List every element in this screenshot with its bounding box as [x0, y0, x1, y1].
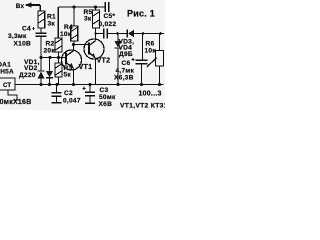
label C6 4,7мк Х6,3В: [114, 60, 135, 82]
input arrow: [25, 2, 40, 7]
svg-text:СТ: СТ: [3, 83, 11, 89]
resistor R1: [38, 11, 45, 28]
svg-text:VT1: VT1: [79, 62, 93, 71]
label R5 3к: [84, 9, 93, 23]
node VT2 collector junction: [94, 32, 96, 34]
svg-text:С4: С4: [22, 26, 31, 33]
node detector junction: [116, 32, 119, 35]
label DA1 inside СТ: [3, 83, 11, 89]
node bus VD1: [39, 83, 42, 86]
svg-text:4,7мк: 4,7мк: [116, 68, 135, 75]
svg-text:Д9Б: Д9Б: [119, 51, 133, 58]
diode VD2: [46, 58, 53, 85]
svg-text:3,3мк: 3,3мк: [8, 33, 27, 40]
label R2 20к: [44, 41, 56, 55]
wire VT2 emitter to ground bus: [95, 58, 97, 85]
node bus R6: [158, 83, 161, 86]
svg-text:Х6,3В: Х6,3В: [114, 75, 134, 82]
label C2 0,047: [63, 90, 81, 105]
svg-text:Х6В: Х6В: [99, 101, 113, 108]
label R3 5к: [64, 65, 73, 79]
label КР142ЕН5А: [0, 69, 14, 76]
wire C4 to base node: [40, 37, 42, 58]
capacitor C6: [132, 34, 148, 85]
node junction C4/VD1: [39, 56, 42, 59]
svg-text:С2: С2: [64, 90, 73, 97]
resistor R3: [55, 58, 62, 85]
wire VT1 emitter to ground bus: [73, 68, 75, 84]
svg-text:Д220: Д220: [19, 72, 36, 79]
svg-text:КР142ЕН5А: КР142ЕН5А: [0, 69, 14, 76]
capacitor C4: [32, 27, 47, 36]
capacitor C5 coupling: [104, 29, 107, 39]
label C5* 0,022: [99, 13, 117, 28]
label C3 50мк Х6В: [99, 87, 116, 108]
wire C5 to detector node: [108, 33, 128, 35]
voltage regulator DA1: [0, 78, 17, 100]
label R4 10к: [60, 24, 73, 38]
wire bus to R2: [57, 7, 59, 38]
node junction R2/R3: [57, 56, 60, 59]
resistor R6 variable: [147, 34, 164, 85]
node bus C3: [88, 83, 91, 86]
node VD3 output junction: [142, 32, 145, 35]
node R4/collector junction: [72, 43, 75, 46]
ground DA1: [14, 99, 21, 101]
svg-text:Вх: Вх: [16, 3, 25, 10]
svg-text:VT2: VT2: [97, 55, 111, 64]
capacitor C3: [82, 85, 95, 103]
ground C2: [52, 102, 62, 104]
svg-text:0,047: 0,047: [63, 98, 81, 105]
resistor R2: [55, 38, 62, 52]
node bus R3/C2: [55, 83, 58, 86]
label R1 3к: [47, 14, 56, 28]
wire R2 to base node: [58, 52, 60, 58]
label VD1 VD2 Д220: [19, 59, 40, 79]
wire collector node to C5: [96, 33, 104, 35]
node bus VT1 emitter: [72, 83, 75, 86]
label VT1: [79, 62, 93, 71]
svg-text:3к: 3к: [84, 16, 92, 23]
svg-text:5к: 5к: [64, 72, 72, 79]
label VT2: [97, 55, 111, 64]
wire ground bus: [15, 84, 164, 86]
svg-text:Рис. 1: Рис. 1: [127, 9, 155, 19]
svg-text:100...3: 100...3: [139, 91, 162, 98]
svg-text:Х10В: Х10В: [14, 41, 32, 48]
node R6 top junction: [159, 32, 162, 35]
node top bus R4: [72, 5, 75, 8]
svg-text:R4: R4: [64, 24, 73, 31]
node bus VD2: [48, 83, 51, 86]
wire top bus +V: [58, 6, 104, 8]
diode VD3: [127, 30, 164, 38]
svg-text:VD2: VD2: [24, 65, 38, 72]
transistor VT1: [62, 45, 82, 71]
label R6 10к: [145, 41, 157, 55]
node Вх input label: [16, 3, 25, 10]
svg-text:20к: 20к: [44, 48, 56, 55]
svg-text:VT1,VT2 КТ315: VT1,VT2 КТ315: [120, 103, 165, 110]
wire VT1 collector to VT2 base: [74, 44, 90, 46]
ground C3: [85, 102, 95, 104]
wire R1 to C4: [40, 28, 42, 33]
diode VD4: [115, 34, 122, 85]
resistor R5: [93, 7, 100, 34]
svg-text:С3: С3: [100, 87, 109, 94]
svg-text:R1: R1: [47, 14, 56, 21]
svg-text:10к: 10к: [60, 31, 72, 38]
capacitor C2: [52, 85, 62, 103]
label Рис. 1: [127, 9, 155, 19]
resistor R4: [71, 7, 78, 45]
capacitor C5 upper plates: [105, 2, 109, 12]
transistor VT2: [84, 34, 104, 60]
diode VD1: [38, 58, 45, 85]
svg-text:С1 100мкХ16В: С1 100мкХ16В: [0, 99, 32, 106]
node top bus R5: [94, 5, 97, 8]
label C1 value: [0, 99, 32, 106]
svg-text:С5*: С5*: [104, 13, 116, 20]
svg-text:3к: 3к: [48, 21, 56, 28]
label 100...300: [139, 91, 162, 98]
node bus VD4: [116, 83, 119, 86]
wire base line VT1: [41, 57, 66, 59]
svg-text:С6: С6: [122, 60, 131, 67]
label C4 3,3мк Х10В: [8, 26, 31, 48]
label VT1 VT2 КТ315: [120, 103, 172, 110]
svg-text:0,022: 0,022: [99, 21, 117, 28]
svg-text:DA1: DA1: [0, 62, 11, 69]
label DA1 designator: [0, 62, 11, 69]
wire input to R1: [39, 5, 41, 11]
svg-text:R2: R2: [46, 41, 55, 48]
node junction VD2: [48, 56, 51, 59]
node bus C6: [140, 83, 143, 86]
svg-text:10к: 10к: [145, 47, 157, 54]
label VD3 VD4 Д9Б: [119, 39, 135, 59]
